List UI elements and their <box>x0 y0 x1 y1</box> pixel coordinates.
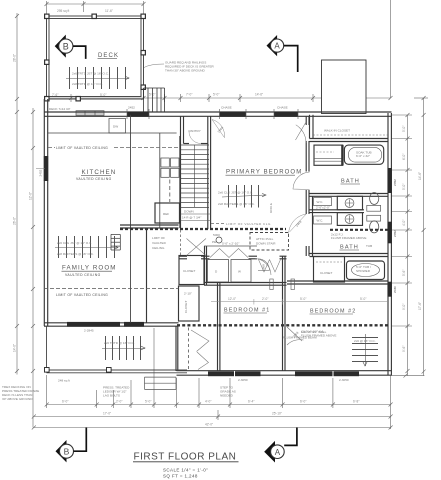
svg-text:LIMIT OF VAULTED CEILING: LIMIT OF VAULTED CEILING <box>56 146 108 150</box>
svg-text:2'-0": 2'-0" <box>116 400 122 404</box>
svg-text:2x8 TRTD @ 16" O.C.: 2x8 TRTD @ 16" O.C. <box>72 82 103 86</box>
bedroom2 joist hatch <box>352 334 378 366</box>
svg-text:2x6 CLG JST @ 16" O.C.: 2x6 CLG JST @ 16" O.C. <box>218 191 253 195</box>
washer dryer <box>208 260 229 283</box>
svg-text:VAULTED: VAULTED <box>152 241 167 245</box>
toilet 2 <box>367 215 381 221</box>
pantry door arc into bedroom <box>212 120 225 139</box>
flush beam hatched line across middle <box>120 228 286 230</box>
deck posts <box>45 14 146 101</box>
wall between kitchen col and family <box>146 228 148 323</box>
vanity 2 <box>337 213 362 226</box>
svg-text:BEDROOM #1: BEDROOM #1 <box>224 308 270 314</box>
svg-text:DECK: DECK <box>98 53 119 59</box>
svg-text:2452: 2452 <box>393 230 397 237</box>
svg-text:FAMILY ROOM: FAMILY ROOM <box>62 265 117 272</box>
section marker A bottom <box>264 428 297 463</box>
left dimension line x=33 <box>31 108 35 428</box>
left dimension line x=17 <box>15 13 19 375</box>
joist arrowheads <box>114 76 367 366</box>
svg-text:2-3050: 2-3050 <box>339 378 349 382</box>
svg-text:14'-0": 14'-0" <box>13 344 17 352</box>
pantry door arc <box>189 132 201 144</box>
primary joist hatch <box>222 185 266 208</box>
chimney <box>322 60 367 114</box>
svg-text:LIMIT OF VAULTED CLG: LIMIT OF VAULTED CLG <box>226 222 271 226</box>
svg-text:9'-6": 9'-6" <box>402 346 406 352</box>
svg-text:2x8 RAFTERS @ 16" O.C.: 2x8 RAFTERS @ 16" O.C. <box>218 202 255 206</box>
stair down arrow <box>194 145 196 207</box>
svg-text:5'-0": 5'-0" <box>213 93 219 97</box>
svg-text:2'-10": 2'-10" <box>184 292 192 296</box>
dashed opening <box>180 230 182 255</box>
walk-in closet walls <box>310 115 389 142</box>
svg-text:2452: 2452 <box>39 169 43 176</box>
smoke detector <box>216 237 222 243</box>
deck side stairs <box>144 88 165 112</box>
limit of vaulted ceiling dashed (family) <box>44 288 179 290</box>
svg-text:26'-0": 26'-0" <box>13 217 17 225</box>
pantry walls <box>184 116 208 143</box>
svg-text:100 SF 3/4" WALL: 100 SF 3/4" WALL <box>301 330 327 334</box>
left wall windows <box>44 156 48 181</box>
bottom dimension line B2 y=404.5 <box>45 328 393 429</box>
small interior steps <box>111 234 120 250</box>
svg-text:12'-0": 12'-0" <box>29 192 33 200</box>
svg-text:PANTRY: PANTRY <box>189 129 201 133</box>
svg-text:248 sq ft: 248 sq ft <box>58 379 70 383</box>
svg-text:BATH: BATH <box>340 245 359 251</box>
kitchen sink <box>161 158 179 177</box>
primary bath door arcs <box>255 122 310 275</box>
bath1/wc wall <box>310 194 389 257</box>
svg-text:295 sq ft: 295 sq ft <box>57 9 69 13</box>
bedroom2 door arc <box>287 327 304 345</box>
kitchen bottom wall <box>120 225 179 228</box>
stair treads <box>181 145 210 207</box>
svg-text:5'-0": 5'-0" <box>402 126 406 132</box>
svg-text:B: B <box>64 446 70 456</box>
window ticks top wall <box>127 109 298 119</box>
svg-text:LAG BOLTS: LAG BOLTS <box>103 394 120 398</box>
section marker B bottom <box>56 428 87 463</box>
right dimension line x=407.5 <box>392 113 413 376</box>
REF box <box>155 203 180 223</box>
bedrooms bottom wall <box>177 371 392 376</box>
left wall <box>44 99 47 326</box>
svg-text:6'-4": 6'-4" <box>248 400 254 404</box>
closet column bedroom1 <box>176 326 178 371</box>
deck entry steps on wall <box>76 111 104 116</box>
svg-text:W.C.: W.C. <box>317 200 324 204</box>
closet bath2 <box>314 257 345 283</box>
svg-text:FLUSH FRAMED ABOVE: FLUSH FRAMED ABOVE <box>331 236 366 240</box>
svg-text:A: A <box>275 448 281 457</box>
deck joist hatch <box>66 67 129 89</box>
svg-text:SHOWER: SHOWER <box>356 269 371 273</box>
family joist hatch <box>55 236 118 258</box>
svg-text:25'-10": 25'-10" <box>272 412 282 416</box>
toilet 1 <box>370 193 379 205</box>
svg-text:6'-8": 6'-8" <box>353 400 359 404</box>
svg-text:CLOSET: CLOSET <box>320 271 332 275</box>
svg-text:6'-0": 6'-0" <box>402 154 406 160</box>
interior dim line bedrooms <box>211 299 388 305</box>
bath2 walls <box>310 254 389 257</box>
svg-text:A: A <box>274 42 280 51</box>
laundry bottom wall <box>204 283 287 286</box>
laundry wall segments with caps <box>201 256 287 259</box>
family room bottom wall <box>44 323 179 326</box>
svg-text:5'-0" x 2'-10": 5'-0" x 2'-10" <box>222 242 239 246</box>
svg-text:2-2845: 2-2845 <box>84 329 94 333</box>
patio posts <box>45 368 112 373</box>
closet track dashed <box>188 328 190 371</box>
kitchen counter top run <box>48 132 177 134</box>
svg-text:SQ FT = 1,248: SQ FT = 1,248 <box>163 474 198 479</box>
svg-text:BEDROOM #2: BEDROOM #2 <box>310 309 356 315</box>
svg-text:PE: PE <box>212 240 216 244</box>
svg-text:TUB: TUB <box>366 244 372 248</box>
svg-text:THAN 30" ABOVE GROUND: THAN 30" ABOVE GROUND <box>165 69 206 73</box>
svg-text:14'-6": 14'-6" <box>418 172 422 180</box>
patio joist hatch <box>102 336 145 360</box>
svg-text:DOWN: DOWN <box>184 210 194 214</box>
svg-text:NEEDED: NEEDED <box>220 394 234 398</box>
right wall <box>388 113 391 376</box>
bedroom1 closet bifold chevrons <box>259 260 281 273</box>
svg-text:2x6 TRTD @ 16" O.C.: 2x6 TRTD @ 16" O.C. <box>104 341 135 345</box>
bedroom bottom windows <box>208 371 359 376</box>
svg-text:6'-0": 6'-0" <box>62 400 68 404</box>
svg-text:9'-0": 9'-0" <box>402 304 406 310</box>
svg-text:W: W <box>238 270 241 274</box>
svg-text:5'-0": 5'-0" <box>300 297 306 301</box>
shower bath1 <box>314 145 342 165</box>
limit of vaulted ceiling (kitchen) <box>48 147 179 149</box>
svg-text:CHASE: CHASE <box>221 106 232 110</box>
svg-text:7'-0": 7'-0" <box>186 93 192 97</box>
hall wall caps y=256 <box>179 256 188 259</box>
svg-text:30" ABOVE GROUND: 30" ABOVE GROUND <box>2 397 33 401</box>
bottom dimension line B3 y=416.5 <box>32 410 393 420</box>
soak tub bath1 <box>344 145 383 164</box>
svg-text:2x8 RAFTERS @ 16" O.C.: 2x8 RAFTERS @ 16" O.C. <box>57 252 94 256</box>
closet bifold chevrons <box>191 330 209 370</box>
limit of vaulted clg dashed in bedroom <box>211 223 224 225</box>
step structure <box>145 377 177 389</box>
svg-text:6'-0" x 32": 6'-0" x 32" <box>356 154 370 158</box>
svg-text:2452: 2452 <box>128 106 135 110</box>
svg-text:LIMIT OF: LIMIT OF <box>152 236 165 240</box>
vanity 1 <box>337 196 362 210</box>
right wall windows <box>388 168 392 297</box>
svg-text:FIRST FLOOR PLAN: FIRST FLOOR PLAN <box>134 452 237 463</box>
door arc hall to bath2 <box>258 259 270 271</box>
bottom dimension line B4 y=427.5 <box>32 426 393 430</box>
laundry header line <box>204 245 257 247</box>
deck walls <box>47 16 144 99</box>
svg-text:2x6 CLG JST @ 16" O.C.: 2x6 CLG JST @ 16" O.C. <box>57 241 92 245</box>
bedroom divider walls <box>218 257 286 372</box>
svg-text:CEILING: CEILING <box>152 246 165 250</box>
laundry left wall <box>204 246 206 285</box>
svg-text:5'-6": 5'-6" <box>402 270 406 276</box>
lower closet <box>179 286 200 321</box>
WC compartment 1 <box>314 198 332 206</box>
kitchen side counter <box>160 133 180 228</box>
dimension line upper (y=98) across top of house <box>45 0 393 102</box>
svg-text:KITCHEN: KITCHEN <box>82 169 117 176</box>
svg-text:CLOSET: CLOSET <box>183 269 195 273</box>
svg-text:2-3050: 2-3050 <box>238 378 248 382</box>
leader from note to deck <box>144 64 164 68</box>
svg-text:DW: DW <box>113 125 118 129</box>
patio outline <box>47 326 188 373</box>
svg-text:VAULTED CEILING: VAULTED CEILING <box>65 273 101 277</box>
hall double doors X <box>187 239 207 256</box>
svg-text:CHASE: CHASE <box>277 106 288 110</box>
door arc bedroom to hall <box>289 214 307 235</box>
svg-text:14'-6": 14'-6" <box>255 93 263 97</box>
dimension line top of deck <box>45 1 146 14</box>
stair walls <box>181 116 211 229</box>
svg-text:2452: 2452 <box>393 179 397 186</box>
svg-text:14 R @ 7 3/4": 14 R @ 7 3/4" <box>182 215 201 219</box>
svg-text:4'-0": 4'-0" <box>402 220 406 226</box>
svg-text:5'-0": 5'-0" <box>145 400 151 404</box>
svg-text:ROD &: ROD & <box>269 202 273 213</box>
svg-text:17'-6": 17'-6" <box>418 302 422 310</box>
rod symbols <box>270 279 295 290</box>
svg-text:2'-6"x2'-0": 2'-6"x2'-0" <box>316 205 330 209</box>
svg-text:LIMIT OF VAULTED CEILING: LIMIT OF VAULTED CEILING <box>56 293 108 297</box>
svg-text:17'-0": 17'-0" <box>103 412 111 416</box>
svg-text:11'-6": 11'-6" <box>105 9 113 13</box>
laundry bifold doors <box>210 249 248 258</box>
svg-text:PRIMARY BEDROOM: PRIMARY BEDROOM <box>226 170 302 176</box>
svg-text:CLOSET: CLOSET <box>184 301 188 313</box>
WC compartment 2 <box>314 216 332 224</box>
top wall <box>44 112 392 116</box>
svg-text:12'-0": 12'-0" <box>228 297 236 301</box>
svg-text:4'-0": 4'-0" <box>205 400 211 404</box>
svg-text:2x6 TRTD JST @ 16" O.C.: 2x6 TRTD JST @ 16" O.C. <box>72 72 109 76</box>
svg-text:B: B <box>63 41 69 51</box>
svg-text:W.C.: W.C. <box>317 218 324 222</box>
section marker A top <box>267 35 298 72</box>
right dimension line x=423.6 <box>392 96 429 378</box>
attic access dashed box <box>250 233 289 251</box>
flush framed beam right <box>330 229 388 231</box>
svg-text:5'-0": 5'-0" <box>360 297 366 301</box>
closet shelf <box>313 134 388 136</box>
section marker B top <box>55 35 86 59</box>
svg-text:5000: 5000 <box>213 233 220 237</box>
svg-text:2'-0": 2'-0" <box>262 297 268 301</box>
fridge dashed center line <box>169 180 171 203</box>
svg-text:2030: 2030 <box>393 286 397 293</box>
svg-text:WALK-IN CLOSET: WALK-IN CLOSET <box>324 129 350 133</box>
svg-text:VAULTED CEILING: VAULTED CEILING <box>76 177 112 181</box>
family room bottom windows <box>67 322 144 327</box>
flush beam bedrooms <box>177 324 388 326</box>
dishwasher DW <box>109 119 126 134</box>
svg-text:ATTIC PULL: ATTIC PULL <box>256 237 274 241</box>
svg-text:REF: REF <box>163 212 169 216</box>
svg-text:2x6 @ 16" O.C.: 2x6 @ 16" O.C. <box>354 339 376 343</box>
svg-text:42'-0": 42'-0" <box>205 423 213 427</box>
bath1 left wall <box>306 116 309 256</box>
svg-text:DECK 7x12 UP: DECK 7x12 UP <box>49 107 70 111</box>
kitchen island line <box>130 115 132 323</box>
svg-text:DOWN STAIR: DOWN STAIR <box>256 242 276 246</box>
svg-text:SCALE 1/4" = 1'-0": SCALE 1/4" = 1'-0" <box>163 467 208 472</box>
svg-text:5'-0": 5'-0" <box>402 184 406 190</box>
hall closet <box>179 256 204 285</box>
svg-text:28'-0": 28'-0" <box>13 54 17 62</box>
tub bath2 <box>347 261 385 280</box>
top wall windows <box>127 112 298 117</box>
bath2 bottom wall <box>287 281 388 284</box>
svg-text:6'-0": 6'-0" <box>300 400 306 404</box>
svg-text:BATH: BATH <box>341 179 360 185</box>
